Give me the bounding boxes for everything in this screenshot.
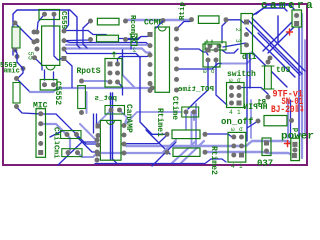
resistor R mic-in <box>12 27 20 48</box>
wire <box>124 112 181 126</box>
connector camera J1 <box>292 10 302 27</box>
wire <box>122 50 124 75</box>
wire <box>216 49 238 53</box>
svg-text:Rcomp: Rcomp <box>128 15 136 38</box>
wire <box>193 113 195 120</box>
wire <box>126 19 190 21</box>
svg-text:POT_time: POT_time <box>177 86 214 94</box>
board outline <box>3 4 307 165</box>
wire <box>263 21 293 51</box>
wire <box>64 59 72 88</box>
wire <box>216 60 227 105</box>
svg-text:1: 1 <box>239 163 243 170</box>
wire <box>98 152 165 154</box>
via <box>13 21 18 26</box>
wire <box>250 100 252 138</box>
wire <box>17 79 30 92</box>
svg-text:ω: ω <box>231 126 235 133</box>
wire <box>256 5 294 14</box>
capacitor C4b <box>62 149 82 157</box>
via <box>150 86 155 91</box>
pin1 arrow Ctip <box>221 40 223 43</box>
wire <box>83 21 91 48</box>
svg-text:σ: σ <box>211 68 215 75</box>
op-amp U1 NE555 <box>42 26 60 65</box>
svg-text:Rtime1: Rtime1 <box>155 108 164 137</box>
wire <box>130 46 132 50</box>
connector LED <box>262 138 271 156</box>
wire <box>44 70 46 80</box>
wire <box>246 54 248 96</box>
wire <box>13 10 80 55</box>
wire <box>156 21 163 28</box>
wire <box>126 145 226 147</box>
wire <box>163 140 176 152</box>
via <box>161 18 166 23</box>
via <box>32 30 37 35</box>
resistor Rt03 <box>265 66 272 89</box>
resistor Rcomp1 <box>97 18 119 25</box>
wire <box>146 130 170 154</box>
wire <box>222 22 226 43</box>
connector POT <box>203 44 220 67</box>
wire <box>65 31 141 39</box>
connector timer J4 <box>228 132 246 162</box>
via <box>32 40 37 45</box>
svg-text:1: 1 <box>237 109 241 116</box>
connector dl1 <box>241 14 253 54</box>
resistor Rtime2 <box>173 148 200 156</box>
pin pads U1 left <box>35 30 40 35</box>
connector RpotS <box>105 59 122 88</box>
via <box>15 54 20 59</box>
svg-text:Rtime2: Rtime2 <box>209 146 218 175</box>
svg-text:яmic: яmic <box>3 68 20 76</box>
wire <box>252 52 287 87</box>
via <box>95 150 100 155</box>
pin1 arrow POT <box>206 40 208 43</box>
svg-text:C4iʇCmi: C4iʇCmi <box>52 127 60 159</box>
polarity mark + power <box>287 141 289 147</box>
svg-text:σ: σ <box>237 77 241 84</box>
capacitor Ctime <box>182 107 199 117</box>
capacitor C552 <box>40 80 57 91</box>
wire <box>246 97 248 141</box>
svg-text:t03: t03 <box>276 66 291 75</box>
wire <box>120 110 128 126</box>
wire <box>247 121 258 128</box>
wire <box>76 136 97 152</box>
wire <box>64 40 91 41</box>
wire <box>226 141 293 146</box>
wire <box>188 60 208 109</box>
wire <box>110 93 112 160</box>
wire <box>136 54 167 135</box>
wire <box>152 142 176 166</box>
pin pads U3 right <box>122 123 127 128</box>
wire <box>242 88 268 95</box>
wire <box>226 20 244 23</box>
connector on_of J2 <box>227 83 245 108</box>
resistor Rcomp2 <box>97 35 119 42</box>
wire <box>124 135 167 144</box>
svg-text:2: 2 <box>132 47 136 54</box>
wire <box>86 92 88 113</box>
svg-text:Ctime: Ctime <box>170 96 179 120</box>
resistor Rmic <box>13 83 20 104</box>
capacitor Cpot_s <box>105 106 125 115</box>
pin pads U1 right <box>62 29 67 34</box>
wire <box>172 141 196 163</box>
svg-text:camera: camera <box>261 0 315 12</box>
svg-text:BJ-20ǁʇ: BJ-20ǁʇ <box>271 104 304 116</box>
wire <box>177 22 191 30</box>
wire <box>126 35 151 40</box>
wire <box>54 14 62 60</box>
wire <box>93 114 95 133</box>
wire <box>58 142 97 165</box>
wire <box>64 10 69 31</box>
svg-text:d: d <box>293 128 301 132</box>
wire <box>287 100 289 138</box>
pin1 arrow RpotS <box>112 52 114 57</box>
wire <box>80 124 95 139</box>
wire <box>248 20 302 74</box>
connector power J3 <box>291 138 300 160</box>
svg-text:pot_s: pot_s <box>94 95 117 103</box>
resistor Rtip <box>198 16 219 24</box>
capacitor small vertical C2 <box>131 34 137 46</box>
wire <box>195 104 197 147</box>
wire <box>123 75 136 88</box>
svg-text:4: 4 <box>231 163 235 170</box>
wire <box>78 153 98 157</box>
pin pads U3 left <box>96 124 101 129</box>
capacitor C4a <box>61 131 81 139</box>
wire <box>64 41 150 46</box>
wire <box>277 16 279 42</box>
wire <box>112 93 114 160</box>
wire <box>84 81 110 82</box>
wire <box>185 113 187 129</box>
wire <box>17 107 39 114</box>
resistor Rtime1 <box>172 130 200 139</box>
svg-text:σ: σ <box>239 126 243 133</box>
wire <box>221 59 251 64</box>
wire <box>206 134 232 137</box>
via <box>95 138 100 143</box>
resistor Rhp <box>264 116 287 126</box>
svg-text:C5552: C5552 <box>53 81 62 105</box>
wire <box>177 49 209 55</box>
svg-text:CanAMP: CanAMP <box>124 104 133 133</box>
svg-text:2: 2 <box>234 28 241 32</box>
svg-text:3: 3 <box>234 39 241 43</box>
connector MIC <box>36 109 46 158</box>
wire <box>181 141 204 163</box>
wire <box>15 23 36 41</box>
wire <box>206 152 293 155</box>
wire <box>249 53 251 88</box>
via <box>21 66 26 71</box>
pin pads U2 left <box>148 43 153 48</box>
svg-text:on_off: on_off <box>221 117 253 127</box>
wire <box>50 131 62 137</box>
wire <box>41 114 98 144</box>
wire <box>290 100 292 138</box>
wire <box>253 8 287 15</box>
svg-text:4: 4 <box>229 109 233 116</box>
svg-text:037: 037 <box>257 159 273 169</box>
resistor Rpot vertical <box>78 86 86 109</box>
wire <box>95 163 117 165</box>
wire <box>66 49 150 53</box>
wire <box>298 10 300 160</box>
wire <box>15 50 23 79</box>
wire <box>64 49 136 54</box>
wire <box>98 110 111 126</box>
svg-text:R1: R1 <box>256 99 266 107</box>
via <box>268 56 273 61</box>
wire <box>30 88 150 92</box>
polarity mark + <box>289 29 291 35</box>
op-amp U2 <box>155 27 170 92</box>
pin 1 pad U2 <box>148 32 153 37</box>
via <box>13 48 18 53</box>
wire <box>113 159 227 164</box>
wire <box>246 28 295 77</box>
capacitor C555 <box>39 10 60 20</box>
op-amp U3 <box>100 120 121 160</box>
svg-text:RpotS: RpotS <box>77 67 101 76</box>
wire <box>304 40 306 135</box>
wire <box>268 25 296 53</box>
svg-text:dl1: dl1 <box>242 53 257 62</box>
wire <box>118 55 151 64</box>
svg-text:ω: ω <box>229 77 233 84</box>
wire <box>66 44 150 47</box>
wire <box>258 33 300 75</box>
wire <box>252 18 305 71</box>
pin 1 pad U1 <box>62 56 67 61</box>
pin pads U2 right <box>174 27 179 32</box>
svg-text:ω: ω <box>203 68 207 75</box>
svg-text:Rtip: Rtip <box>179 1 187 20</box>
wire <box>301 14 303 158</box>
capacitor Ctip <box>205 42 226 50</box>
wire <box>177 64 222 70</box>
via <box>95 158 100 163</box>
wire <box>35 58 43 70</box>
wire <box>97 114 99 126</box>
wire <box>41 124 70 153</box>
wire <box>53 72 55 80</box>
wire <box>37 14 45 32</box>
wire <box>118 82 123 95</box>
wire <box>191 112 193 147</box>
wire <box>223 43 246 47</box>
